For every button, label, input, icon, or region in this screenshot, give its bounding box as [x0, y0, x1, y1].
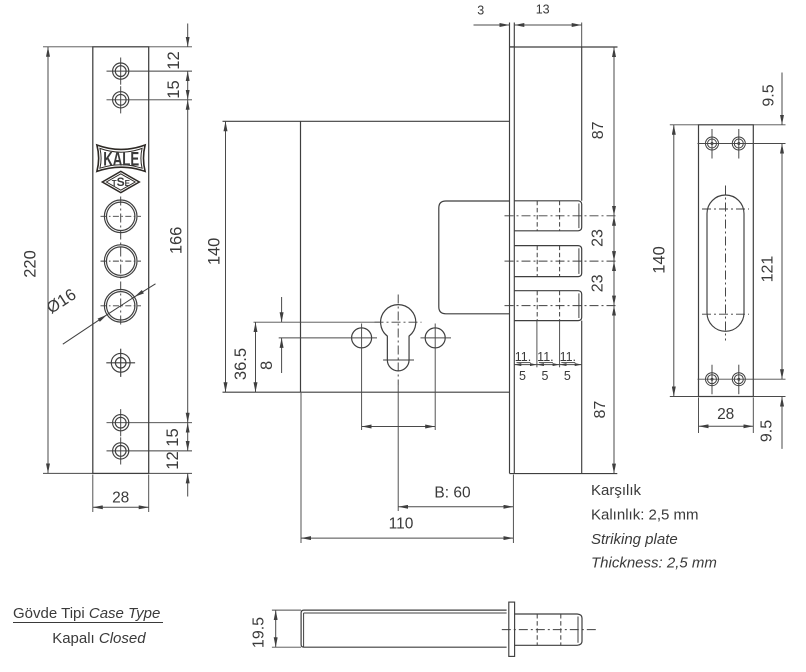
keyhole horizontal centerline [375, 321, 422, 323]
bolt strip right edge lower [581, 321, 583, 474]
dim 110 [301, 537, 513, 539]
svg-text:23: 23 [589, 274, 606, 292]
dim 12 bottom [187, 473, 189, 496]
strike dim 9.5 top [781, 73, 783, 125]
svg-text:19.5: 19.5 [250, 617, 267, 648]
strip top cap [510, 46, 515, 48]
faceplate screw hole top 1 [107, 58, 193, 85]
dim 36.5 extension at keyhole center [254, 321, 382, 323]
dim 23 lower [613, 261, 615, 306]
strike dim 28 extensions [699, 398, 754, 434]
dim 19.5 [275, 610, 277, 647]
strike dim 140 [673, 125, 675, 397]
strike bottom holes crossline [698, 378, 786, 380]
faceplate outline [93, 47, 149, 474]
svg-text:23: 23 [589, 229, 606, 247]
dim 13 right extension [581, 23, 583, 48]
bolt 2 centerline [505, 260, 618, 262]
svg-text:15: 15 [164, 428, 182, 446]
svg-text:Ø16: Ø16 [44, 285, 80, 317]
svg-text:110: 110 [389, 516, 414, 533]
svg-text:87: 87 [592, 401, 609, 419]
bottom view body lid seam lines [303, 613, 305, 647]
bottom view bolt centerline [502, 629, 596, 631]
faceplate screw hole bottom 2 [107, 437, 193, 464]
small hole right horizontal crossline [421, 337, 452, 339]
faceplate strip left line [509, 23, 511, 474]
bolt 2 [514, 246, 581, 277]
dim B:60 [398, 506, 513, 508]
svg-text:5: 5 [542, 369, 549, 383]
svg-text:12: 12 [164, 451, 182, 469]
dim 8 [281, 297, 283, 322]
bolt 3 centerline [505, 305, 618, 307]
euro cylinder keyhole [381, 305, 416, 371]
faceplate screw hole bottom 1 [107, 409, 193, 436]
faceplate strip right line [513, 23, 515, 474]
dim 140 (body) [225, 121, 227, 392]
keyhole slot-bottom crossline [383, 359, 414, 361]
bottom view bolt [515, 614, 582, 645]
right chain extension lines (faceplate) [149, 47, 192, 474]
dim 13 [514, 24, 581, 26]
svg-text:28: 28 [112, 490, 129, 507]
strike plate outline [699, 125, 754, 397]
strike dim 140 extensions [670, 125, 699, 397]
dim 28 faceplate [93, 475, 149, 513]
faceplate small hole [106, 349, 135, 377]
strike dim 28 [699, 425, 754, 427]
dim 12 top [187, 24, 189, 47]
dim 166 [187, 100, 189, 423]
dim 220 [47, 47, 49, 474]
keyhole center extension to B:60 [397, 385, 399, 511]
svg-text:140: 140 [205, 238, 223, 266]
strike screw hole bottom-right [732, 365, 745, 395]
body top edge + 140 extension [223, 120, 510, 122]
bolt strip bottom edge [510, 473, 618, 475]
dim 19.5 extensions [272, 610, 301, 647]
slot vertical centerline [725, 186, 727, 341]
svg-text:B: 60: B: 60 [434, 485, 471, 502]
TSE logo diamond [102, 171, 139, 192]
svg-text:166: 166 [168, 227, 186, 255]
svg-text:5: 5 [564, 369, 571, 383]
svg-text:Striking plate: Striking plate [591, 531, 678, 548]
svg-text:Gövde Tipi Case Type: Gövde Tipi Case Type [13, 605, 160, 622]
faceplate big hole 3 [101, 290, 142, 323]
bolt 1 [514, 201, 581, 231]
body left edge [300, 121, 302, 392]
body bottom edge + extension [223, 391, 510, 393]
strike screw hole top-right [732, 129, 745, 159]
dim 23 upper [613, 216, 615, 261]
svg-text:KALE: KALE [103, 149, 139, 170]
slot top crossline [702, 208, 749, 210]
dim 87 bottom [613, 306, 615, 474]
strike screw hole bottom-left [706, 365, 719, 395]
svg-text:8: 8 [258, 361, 276, 370]
svg-text:140: 140 [651, 246, 669, 274]
dim 36.5 [255, 322, 257, 392]
bolt 3 [514, 291, 581, 321]
strike bottom extension right [753, 396, 785, 398]
dim 15 top [187, 71, 189, 100]
dim 8 extension at small-hole center [279, 337, 377, 339]
faceplate screw hole top 2 [107, 86, 193, 113]
dim 87 top [613, 47, 615, 216]
dim 15 bottom [187, 423, 189, 451]
svg-text:220: 220 [21, 250, 39, 278]
bolt housing rounded box [439, 201, 510, 314]
11.5 dim extension lines [537, 321, 560, 368]
svg-text:12: 12 [165, 51, 183, 69]
dim 3 leader [474, 24, 510, 26]
svg-text:87: 87 [590, 121, 607, 139]
svg-text:11.: 11. [515, 350, 531, 364]
dim 11.5 #1 [514, 364, 537, 366]
svg-text:13: 13 [536, 2, 550, 16]
slot bottom crossline [702, 313, 749, 315]
svg-text:Kalınlık: 2,5 mm: Kalınlık: 2,5 mm [591, 507, 699, 524]
svg-text:9.5: 9.5 [761, 84, 778, 106]
svg-text:Thickness: 2,5 mm: Thickness: 2,5 mm [591, 555, 717, 572]
svg-text:28: 28 [717, 406, 734, 423]
small holes vertical extension lines [362, 324, 436, 431]
dim 110 extension left [300, 393, 302, 543]
body small hole right [425, 328, 445, 348]
svg-text:Kapalı Closed: Kapalı Closed [52, 630, 146, 647]
bottom view body [301, 610, 507, 647]
dim 11.5 #2 [537, 364, 560, 366]
faceplate big hole 1 [101, 200, 142, 233]
bolt strip right edge upper [581, 47, 583, 201]
strike screw hole top-left [706, 129, 719, 159]
svg-text:9.5: 9.5 [758, 420, 775, 442]
bolt strip top edge [510, 46, 618, 48]
svg-text:121: 121 [760, 256, 777, 283]
strike top extension right [753, 124, 785, 126]
big holes vertical centerline [120, 197, 122, 327]
keyhole vertical centerline [397, 295, 399, 386]
strike dim 121 [781, 144, 783, 380]
svg-text:11.: 11. [560, 350, 576, 364]
bolt 1 centerline [505, 215, 618, 217]
body small hole left [352, 328, 372, 348]
strike dim 9.5 bottom [781, 397, 783, 449]
strike top holes crossline [698, 143, 786, 145]
KALE logo banner [97, 145, 145, 171]
dim 220 extension lines [43, 47, 93, 474]
svg-text:11.: 11. [537, 350, 553, 364]
dim 11.5 #3 [560, 364, 582, 366]
svg-text:3: 3 [477, 4, 484, 18]
svg-text:5: 5 [519, 369, 526, 383]
Ø16 leader line [63, 284, 156, 344]
dim between body small holes (unlabeled) [362, 426, 436, 428]
svg-text:15: 15 [165, 80, 183, 98]
svg-text:Karşılık: Karşılık [591, 482, 642, 499]
bottom view faceplate bar [509, 602, 515, 656]
faceplate big hole 2 [101, 245, 142, 278]
strike plate slot [707, 195, 744, 331]
dim 110 / B:60 extension right [512, 475, 514, 544]
svg-text:36.5: 36.5 [232, 348, 250, 380]
